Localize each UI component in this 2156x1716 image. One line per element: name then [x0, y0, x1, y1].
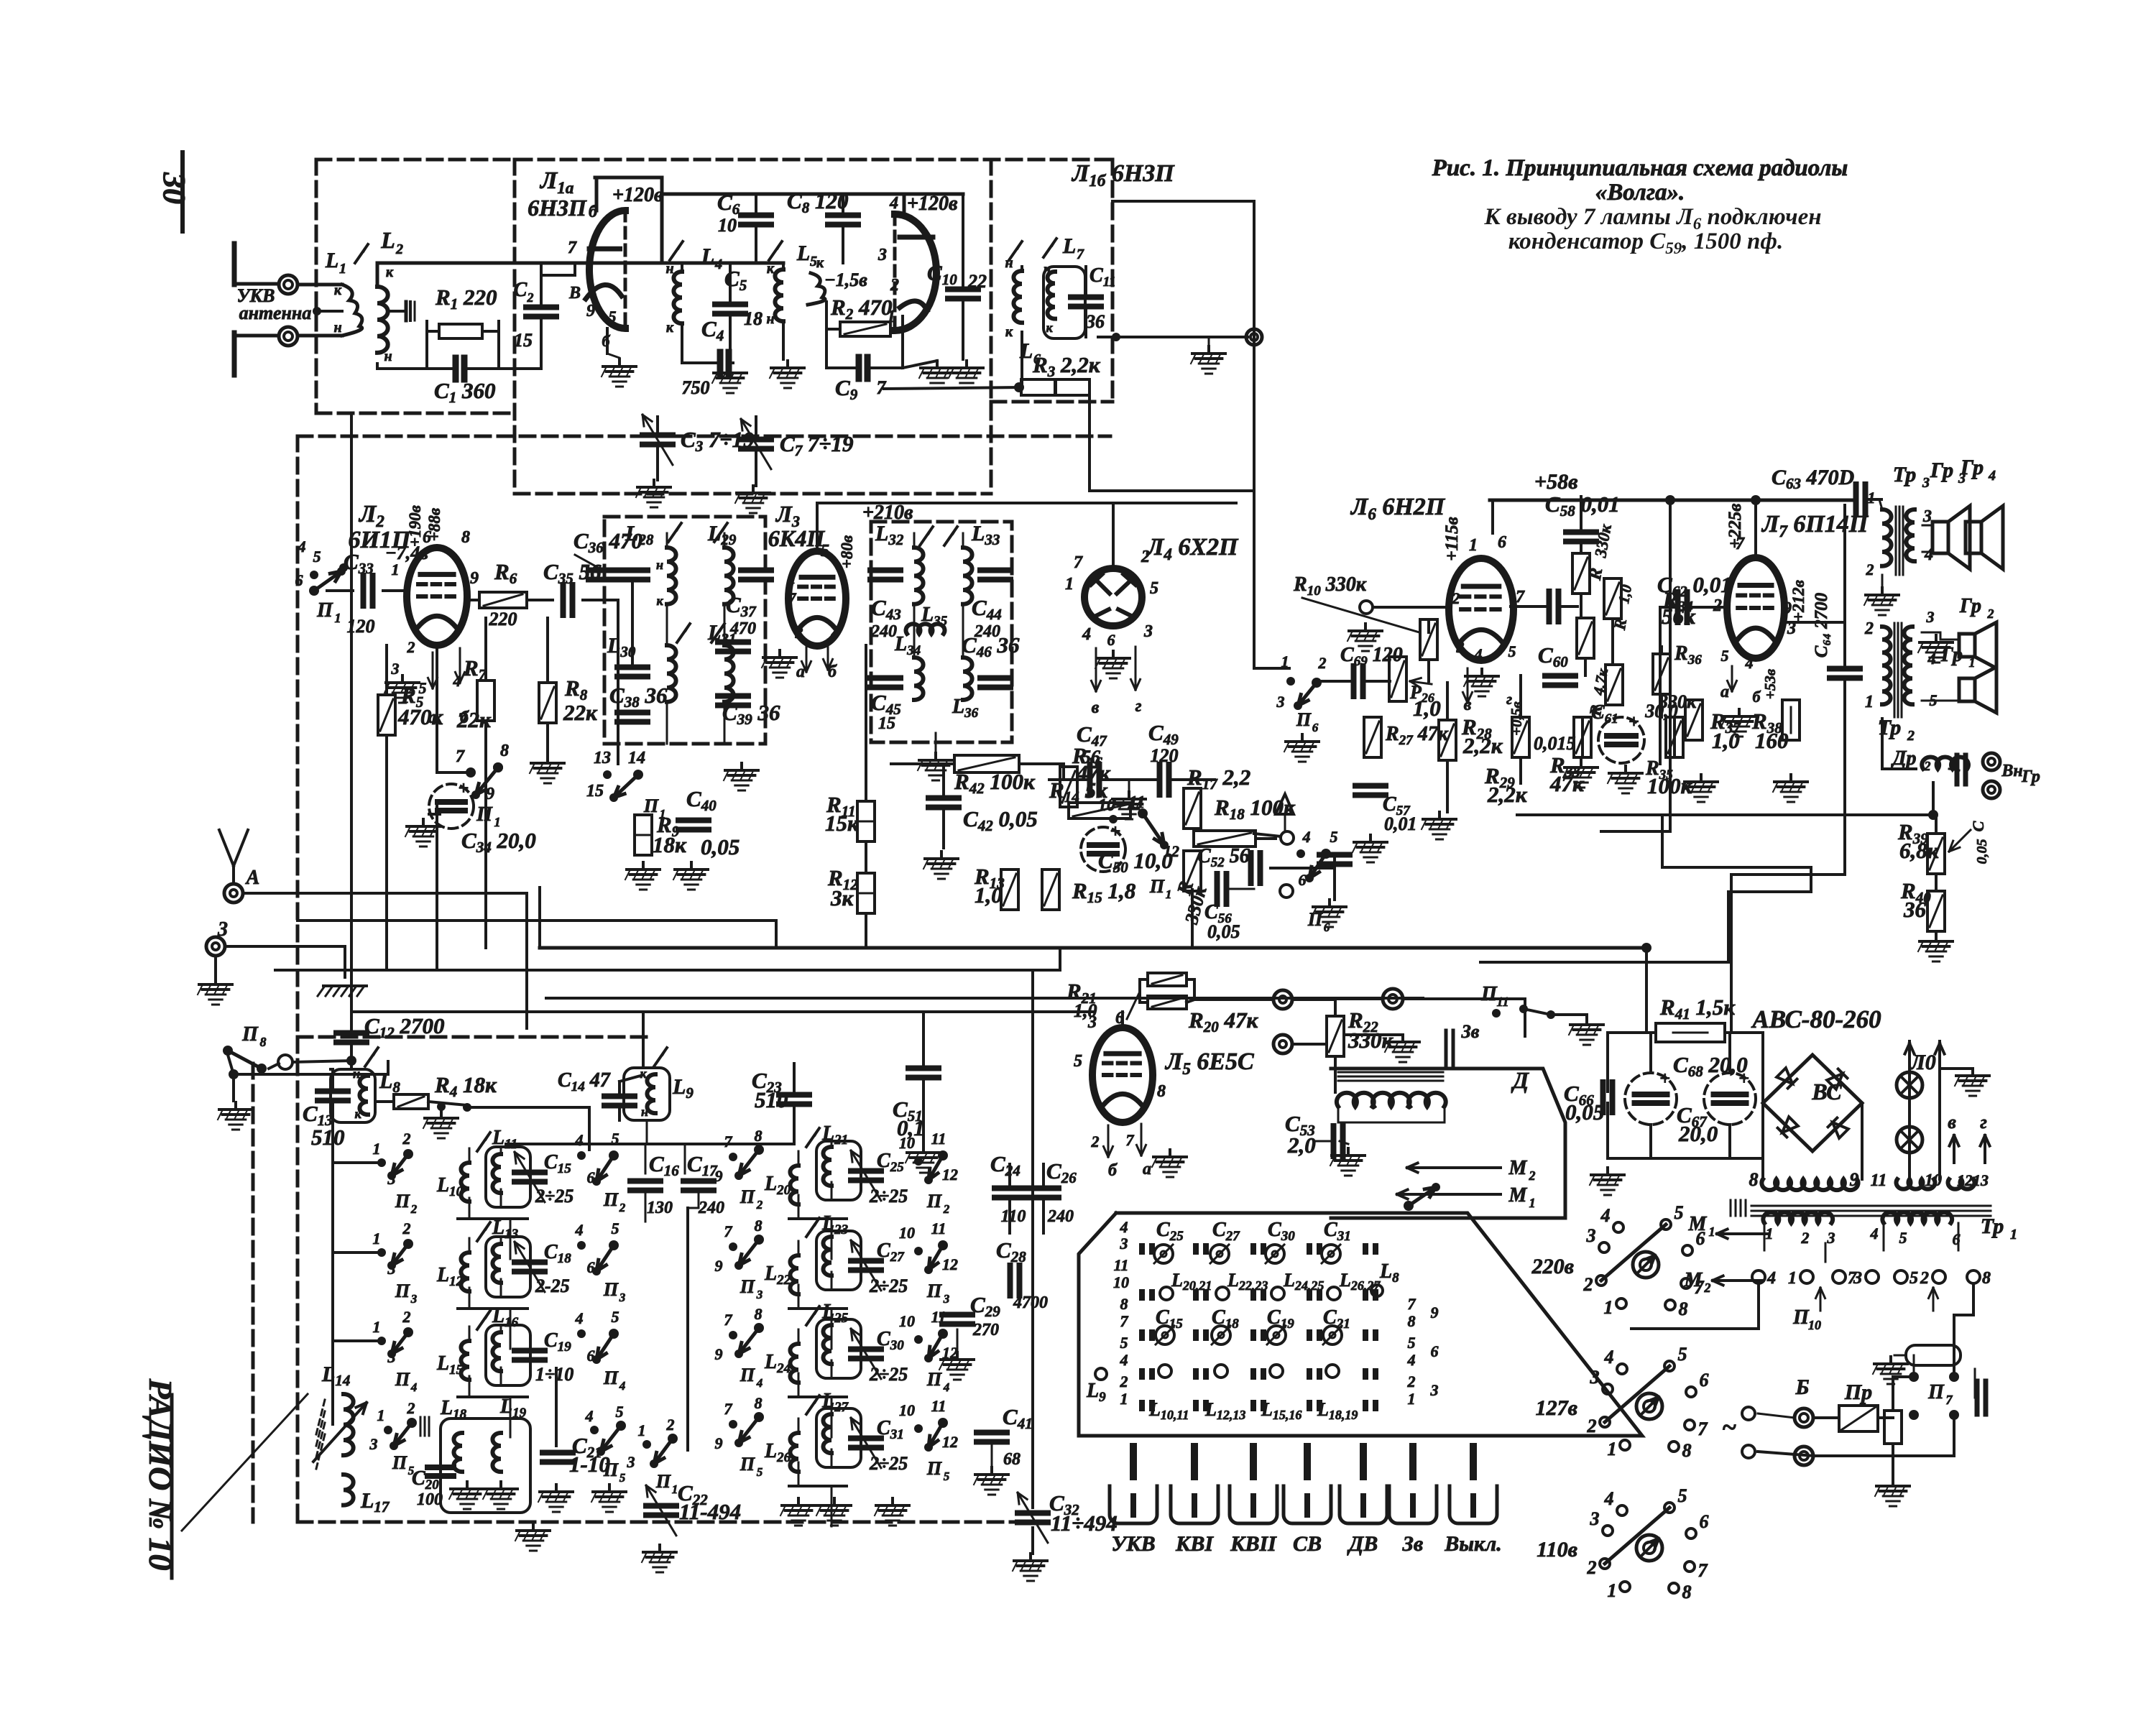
svg-text:П: П: [1927, 1381, 1945, 1403]
svg-text:н: н: [1005, 255, 1013, 271]
svg-text:1: 1: [2010, 1227, 2017, 1242]
svg-text:6: 6: [423, 528, 431, 547]
svg-text:П: П: [603, 1189, 619, 1210]
svg-text:12: 12: [942, 1166, 958, 1184]
svg-text:Д: Д: [1511, 1067, 1529, 1093]
svg-text:3: 3: [1456, 638, 1465, 656]
svg-text:4: 4: [889, 194, 898, 213]
svg-text:9: 9: [486, 785, 494, 803]
svg-text:7: 7: [1946, 1393, 1953, 1407]
svg-text:1,0: 1,0: [975, 882, 1003, 908]
svg-text:2: 2: [402, 1130, 411, 1148]
svg-text:13: 13: [594, 749, 611, 767]
svg-text:3: 3: [1590, 1508, 1600, 1529]
svg-text:Б: Б: [1795, 1375, 1809, 1399]
svg-text:240: 240: [698, 1199, 724, 1217]
svg-text:КВI: КВI: [1175, 1532, 1214, 1556]
svg-text:конденсатор С59, 1500 пф.: конденсатор С59, 1500 пф.: [1508, 229, 1783, 257]
svg-text:L: L: [796, 241, 810, 265]
svg-text:а: а: [1720, 683, 1729, 701]
svg-text:П: П: [740, 1365, 755, 1385]
svg-text:160: 160: [1755, 728, 1789, 753]
svg-text:R42 100к: R42 100к: [954, 769, 1036, 797]
svg-text:П: П: [740, 1276, 755, 1297]
svg-text:2: 2: [1091, 1133, 1100, 1150]
svg-text:2: 2: [1864, 619, 1874, 638]
svg-text:R10 330к: R10 330к: [1293, 573, 1367, 599]
svg-text:9: 9: [715, 1167, 723, 1185]
svg-text:4: 4: [1766, 1269, 1776, 1288]
svg-text:н: н: [353, 1066, 360, 1081]
svg-text:4: 4: [1120, 1218, 1128, 1236]
svg-text:к: к: [656, 594, 663, 608]
svg-text:н: н: [766, 311, 774, 327]
svg-text:240: 240: [1047, 1207, 1074, 1226]
svg-text:11: 11: [1496, 995, 1508, 1009]
svg-text:2: 2: [1987, 606, 1994, 621]
svg-text:Гр: Гр: [2021, 767, 2040, 786]
svg-text:5: 5: [1678, 1485, 1687, 1506]
svg-text:2: 2: [1120, 1373, 1128, 1390]
svg-text:1,0: 1,0: [1413, 696, 1441, 721]
svg-text:г: г: [1506, 690, 1512, 708]
svg-text:3: 3: [1853, 1269, 1862, 1288]
svg-text:П: П: [1307, 909, 1323, 930]
svg-text:С34 20,0: С34 20,0: [461, 828, 536, 856]
svg-text:1: 1: [377, 1406, 385, 1424]
svg-text:R20 47к: R20 47к: [1188, 1007, 1258, 1035]
svg-text:П: П: [392, 1452, 407, 1473]
svg-text:4: 4: [575, 1309, 584, 1327]
svg-text:14: 14: [628, 749, 645, 767]
svg-text:10: 10: [899, 1224, 915, 1242]
svg-text:1: 1: [1608, 1580, 1617, 1601]
svg-text:4: 4: [298, 538, 306, 555]
svg-text:4: 4: [619, 1379, 626, 1393]
svg-text:10: 10: [899, 1134, 915, 1152]
svg-text:1: 1: [339, 261, 346, 277]
svg-text:15: 15: [878, 714, 895, 733]
svg-text:2: 2: [1587, 1557, 1597, 1578]
svg-text:6: 6: [1324, 921, 1330, 934]
svg-text:36: 36: [1085, 311, 1105, 332]
svg-text:Вн: Вн: [2001, 762, 2022, 780]
svg-text:а: а: [1143, 1160, 1151, 1178]
svg-text:2: 2: [395, 241, 403, 257]
svg-text:П: П: [316, 599, 333, 622]
svg-text:1: 1: [1281, 652, 1289, 670]
svg-text:11: 11: [1871, 1171, 1887, 1190]
svg-text:0,05: 0,05: [1207, 921, 1240, 942]
svg-text:36: 36: [1903, 897, 1927, 922]
svg-text:М: М: [1508, 1157, 1528, 1179]
svg-text:5: 5: [1150, 579, 1158, 598]
svg-text:7: 7: [568, 239, 577, 257]
svg-text:2÷25: 2÷25: [869, 1186, 908, 1207]
svg-text:2: 2: [402, 1219, 411, 1237]
svg-text:12: 12: [1957, 1171, 1973, 1189]
svg-text:7: 7: [1077, 246, 1084, 262]
svg-text:5: 5: [619, 1471, 626, 1485]
svg-text:3: 3: [1922, 475, 1930, 491]
svg-text:4: 4: [1604, 1488, 1614, 1509]
svg-text:1: 1: [1529, 1196, 1536, 1210]
svg-text:в: в: [1092, 698, 1100, 717]
svg-text:11: 11: [931, 1219, 946, 1237]
svg-text:7: 7: [1736, 535, 1745, 553]
svg-text:1: 1: [1065, 575, 1074, 594]
svg-text:к: к: [386, 264, 394, 280]
svg-text:П: П: [395, 1281, 410, 1301]
svg-text:3: 3: [1430, 1381, 1439, 1399]
svg-text:750: 750: [682, 377, 710, 398]
svg-text:9: 9: [586, 302, 595, 320]
svg-text:4: 4: [756, 1376, 763, 1390]
svg-text:8: 8: [755, 1127, 763, 1145]
svg-text:УКВ: УКВ: [1111, 1532, 1155, 1556]
svg-text:+210в: +210в: [862, 502, 913, 524]
svg-text:18к: 18к: [653, 832, 687, 857]
svg-text:7: 7: [724, 1311, 733, 1329]
svg-text:Тр: Тр: [1981, 1214, 2004, 1238]
svg-text:7: 7: [1695, 1277, 1705, 1298]
svg-text:30: 30: [157, 172, 192, 204]
svg-text:1: 1: [335, 611, 341, 625]
svg-text:4: 4: [1600, 1205, 1611, 1226]
svg-text:3: 3: [1143, 622, 1153, 641]
svg-text:С62 0,01: С62 0,01: [1657, 572, 1732, 600]
svg-text:10: 10: [1808, 1318, 1821, 1332]
svg-text:1,0: 1,0: [1712, 728, 1740, 753]
svg-text:9: 9: [470, 569, 479, 588]
svg-text:9: 9: [715, 1434, 723, 1452]
svg-text:4: 4: [943, 1380, 950, 1394]
svg-text:7: 7: [1120, 1312, 1129, 1330]
svg-text:R3 2,2к: R3 2,2к: [1032, 352, 1101, 380]
svg-text:Л0: Л0: [1909, 1051, 1936, 1074]
svg-text:Гр: Гр: [1930, 458, 1953, 482]
svg-text:+: +: [1659, 1068, 1670, 1089]
svg-text:10: 10: [718, 215, 737, 236]
svg-text:1: 1: [494, 815, 501, 829]
svg-text:R41 1,5к: R41 1,5к: [1659, 995, 1736, 1023]
svg-text:С42 0,05: С42 0,05: [963, 806, 1038, 834]
svg-text:2: 2: [1529, 1168, 1536, 1183]
svg-text:П: П: [1296, 709, 1312, 730]
svg-text:8: 8: [1679, 1298, 1688, 1319]
svg-text:6: 6: [295, 571, 303, 589]
svg-text:г: г: [1135, 697, 1142, 716]
svg-text:11: 11: [931, 1130, 946, 1148]
svg-text:120: 120: [1151, 745, 1179, 766]
svg-text:к: к: [1046, 320, 1053, 335]
svg-text:8: 8: [1682, 1582, 1692, 1602]
svg-text:к: к: [666, 320, 674, 336]
svg-text:г: г: [1980, 1112, 1987, 1133]
svg-text:5: 5: [612, 1308, 619, 1326]
svg-text:L: L: [380, 227, 395, 253]
svg-text:8: 8: [1120, 1295, 1128, 1313]
svg-text:1: 1: [373, 1230, 381, 1247]
svg-text:5: 5: [1721, 647, 1729, 665]
svg-text:П: П: [655, 1471, 671, 1492]
svg-text:М: М: [1508, 1184, 1528, 1207]
svg-text:270: 270: [972, 1321, 999, 1339]
svg-text:R2 470: R2 470: [830, 295, 892, 323]
svg-text:2÷25: 2÷25: [869, 1364, 908, 1385]
svg-text:П: П: [603, 1367, 619, 1388]
svg-text:С1 360: С1 360: [434, 378, 495, 406]
svg-text:10: 10: [899, 1401, 915, 1419]
svg-text:+212в: +212в: [1789, 580, 1807, 622]
svg-text:П: П: [926, 1281, 942, 1301]
svg-text:2: 2: [890, 276, 899, 295]
svg-text:3к: 3к: [830, 885, 854, 910]
svg-text:А: А: [245, 867, 260, 889]
svg-text:0,05: 0,05: [1974, 839, 1990, 864]
svg-text:240: 240: [870, 622, 897, 641]
svg-text:8: 8: [1682, 1440, 1692, 1461]
svg-text:С63 470D: С63 470D: [1772, 466, 1854, 492]
svg-text:11: 11: [931, 1397, 946, 1415]
svg-text:н: н: [656, 558, 663, 572]
svg-text:12: 12: [942, 1255, 958, 1273]
svg-text:2: 2: [943, 1202, 950, 1216]
svg-text:6: 6: [1700, 1370, 1709, 1390]
svg-text:3: 3: [1586, 1225, 1596, 1246]
svg-text:+115в: +115в: [1442, 517, 1462, 561]
svg-text:8: 8: [1157, 1082, 1166, 1101]
svg-text:1: 1: [1469, 536, 1478, 555]
svg-text:1: 1: [1608, 1439, 1617, 1459]
svg-text:П: П: [1149, 876, 1165, 897]
svg-text:10: 10: [899, 1312, 915, 1330]
svg-text:1: 1: [1120, 1390, 1128, 1408]
svg-text:П: П: [740, 1186, 755, 1207]
svg-text:4: 4: [575, 1131, 584, 1149]
svg-text:6: 6: [1299, 871, 1307, 889]
svg-text:2: 2: [1924, 759, 1931, 773]
svg-text:5: 5: [944, 1470, 950, 1483]
svg-text:4: 4: [1870, 1224, 1879, 1242]
svg-text:11÷494: 11÷494: [1051, 1510, 1118, 1536]
svg-text:б: б: [1108, 1161, 1118, 1180]
svg-text:0,01: 0,01: [1384, 813, 1417, 834]
svg-text:6,8к: 6,8к: [1899, 838, 1940, 863]
svg-text:1: 1: [392, 561, 400, 578]
svg-text:5: 5: [612, 1130, 619, 1148]
svg-text:П: П: [926, 1191, 942, 1212]
svg-text:8: 8: [1408, 1312, 1416, 1330]
svg-text:4: 4: [1302, 828, 1311, 846]
svg-text:Тр: Тр: [1893, 463, 1917, 486]
svg-text:4: 4: [831, 624, 839, 642]
svg-text:5: 5: [1408, 1334, 1416, 1352]
svg-text:2: 2: [1407, 1373, 1416, 1390]
svg-text:С7 7÷19: С7 7÷19: [780, 431, 853, 459]
svg-text:+53в: +53в: [1761, 668, 1779, 699]
svg-text:5: 5: [1678, 1344, 1687, 1365]
svg-text:+: +: [1110, 821, 1121, 841]
svg-text:С68 20,0: С68 20,0: [1673, 1052, 1748, 1080]
svg-text:2: 2: [1907, 728, 1915, 744]
svg-text:510: 510: [311, 1125, 345, 1150]
svg-text:к: к: [816, 255, 824, 271]
svg-text:0,05: 0,05: [1565, 1099, 1604, 1125]
svg-text:3: 3: [1120, 1235, 1128, 1253]
svg-text:П: П: [1792, 1306, 1810, 1329]
svg-text:130: 130: [647, 1199, 673, 1217]
svg-text:2÷25: 2÷25: [535, 1186, 573, 1207]
svg-text:1÷10: 1÷10: [535, 1364, 573, 1385]
svg-text:6: 6: [1431, 1342, 1439, 1360]
svg-text:9: 9: [715, 1345, 723, 1363]
svg-text:5: 5: [821, 542, 829, 561]
svg-text:5: 5: [612, 1219, 619, 1237]
svg-text:П: П: [1480, 983, 1498, 1005]
svg-text:Л1б 6Н3П: Л1б 6Н3П: [1071, 160, 1175, 190]
svg-text:+190в: +190в: [406, 505, 424, 547]
svg-text:ДВ: ДВ: [1347, 1532, 1378, 1556]
svg-text:5: 5: [1909, 1269, 1918, 1288]
svg-text:5: 5: [313, 548, 321, 566]
svg-text:10: 10: [1925, 1171, 1942, 1190]
svg-text:2: 2: [1141, 548, 1150, 566]
svg-text:6: 6: [1696, 1228, 1705, 1249]
svg-text:2÷25: 2÷25: [869, 1276, 908, 1296]
svg-text:н: н: [641, 1104, 648, 1119]
svg-text:127в: 127в: [1536, 1396, 1577, 1420]
svg-text:1: 1: [672, 1482, 678, 1496]
svg-text:R4 18к: R4 18к: [434, 1072, 497, 1100]
svg-text:8: 8: [755, 1305, 763, 1323]
svg-text:+120в: +120в: [907, 193, 958, 215]
svg-text:2: 2: [402, 1308, 411, 1326]
svg-text:Гр: Гр: [1959, 595, 1981, 617]
svg-text:9: 9: [715, 1257, 723, 1275]
svg-text:1,0: 1,0: [1615, 583, 1635, 605]
svg-text:4: 4: [1120, 1351, 1128, 1369]
svg-text:8: 8: [461, 528, 470, 547]
svg-text:Гр: Гр: [1960, 456, 1984, 479]
svg-text:7: 7: [1698, 1560, 1708, 1581]
svg-text:2-25: 2-25: [535, 1276, 570, 1296]
svg-text:13: 13: [1973, 1171, 1989, 1189]
svg-text:15: 15: [586, 782, 604, 801]
svg-text:3: 3: [877, 246, 887, 264]
svg-text:1: 1: [1788, 1269, 1797, 1288]
svg-text:П: П: [603, 1459, 619, 1480]
svg-text:н: н: [333, 320, 341, 336]
svg-text:П: П: [395, 1369, 410, 1390]
svg-text:6: 6: [1312, 721, 1319, 734]
svg-text:5: 5: [616, 1403, 624, 1421]
svg-text:5: 5: [1074, 1052, 1082, 1071]
svg-text:6: 6: [1498, 533, 1506, 552]
svg-text:100: 100: [417, 1490, 443, 1509]
svg-text:к: к: [334, 282, 342, 298]
svg-text:R27 47к: R27 47к: [1385, 723, 1449, 748]
svg-text:1: 1: [1868, 489, 1876, 507]
svg-text:7: 7: [1698, 1419, 1708, 1439]
svg-text:2: 2: [666, 1416, 675, 1434]
svg-text:2: 2: [1704, 1281, 1711, 1295]
svg-text:3: 3: [756, 1288, 763, 1301]
svg-text:к: к: [1005, 324, 1013, 340]
svg-text:7: 7: [1126, 1131, 1135, 1149]
svg-text:Зв: Зв: [1402, 1532, 1424, 1556]
svg-text:2: 2: [1920, 1269, 1929, 1288]
svg-text:4: 4: [1988, 468, 1996, 484]
svg-text:4: 4: [1745, 654, 1754, 672]
svg-text:П: П: [740, 1454, 755, 1475]
svg-text:3: 3: [1922, 507, 1932, 526]
svg-text:3: 3: [619, 1291, 626, 1304]
svg-text:8: 8: [500, 742, 509, 760]
svg-text:4: 4: [1082, 625, 1091, 644]
svg-text:8: 8: [1982, 1269, 1991, 1288]
svg-text:8: 8: [755, 1217, 763, 1235]
svg-text:3: 3: [1827, 1229, 1835, 1247]
svg-text:П: П: [926, 1369, 942, 1390]
svg-text:1: 1: [373, 1318, 381, 1336]
svg-text:П: П: [926, 1458, 942, 1479]
svg-text:СВ: СВ: [1293, 1532, 1322, 1556]
svg-text:68: 68: [1003, 1450, 1021, 1469]
svg-text:110в: 110в: [1537, 1538, 1577, 1562]
svg-text:«Волга».: «Волга».: [1595, 180, 1685, 206]
svg-text:2,0: 2,0: [1287, 1133, 1316, 1158]
svg-text:5: 5: [757, 1465, 763, 1479]
svg-text:С14 47: С14 47: [558, 1069, 611, 1094]
svg-text:2: 2: [407, 1399, 415, 1417]
svg-text:15к: 15к: [825, 811, 860, 836]
svg-text:510: 510: [755, 1087, 788, 1112]
svg-text:2: 2: [1452, 589, 1460, 607]
svg-text:11: 11: [1114, 1256, 1129, 1274]
svg-text:2,2к: 2,2к: [1462, 733, 1503, 758]
svg-text:1: 1: [373, 1140, 381, 1158]
svg-text:3: 3: [795, 624, 803, 642]
svg-text:С50 10,0: С50 10,0: [1098, 848, 1173, 876]
svg-text:−1,5в: −1,5в: [824, 269, 867, 290]
svg-text:1: 1: [1408, 1390, 1416, 1408]
svg-text:220: 220: [489, 609, 517, 629]
svg-text:6: 6: [1700, 1511, 1709, 1532]
svg-text:+80в: +80в: [838, 535, 856, 568]
svg-text:7: 7: [788, 589, 797, 607]
svg-text:П: П: [603, 1279, 619, 1300]
svg-text:Др: Др: [1890, 747, 1916, 770]
svg-text:9: 9: [1431, 1304, 1439, 1321]
svg-text:7: 7: [724, 1400, 733, 1418]
svg-text:1: 1: [788, 569, 796, 587]
svg-text:12: 12: [942, 1433, 958, 1451]
svg-text:7: 7: [456, 747, 465, 766]
svg-text:5: 5: [1330, 828, 1338, 846]
svg-text:в: в: [1948, 1112, 1956, 1133]
svg-text:4700: 4700: [1013, 1293, 1048, 1312]
svg-text:3: 3: [627, 1453, 635, 1471]
svg-text:3: 3: [1926, 608, 1935, 626]
svg-text:4: 4: [585, 1407, 594, 1425]
svg-text:8: 8: [1749, 1169, 1759, 1190]
svg-text:R15 1,8: R15 1,8: [1072, 878, 1136, 906]
svg-text:антенна: антенна: [239, 303, 312, 323]
svg-text:4: 4: [1474, 645, 1483, 663]
svg-text:5: 5: [609, 308, 617, 326]
svg-text:4: 4: [575, 1221, 584, 1239]
